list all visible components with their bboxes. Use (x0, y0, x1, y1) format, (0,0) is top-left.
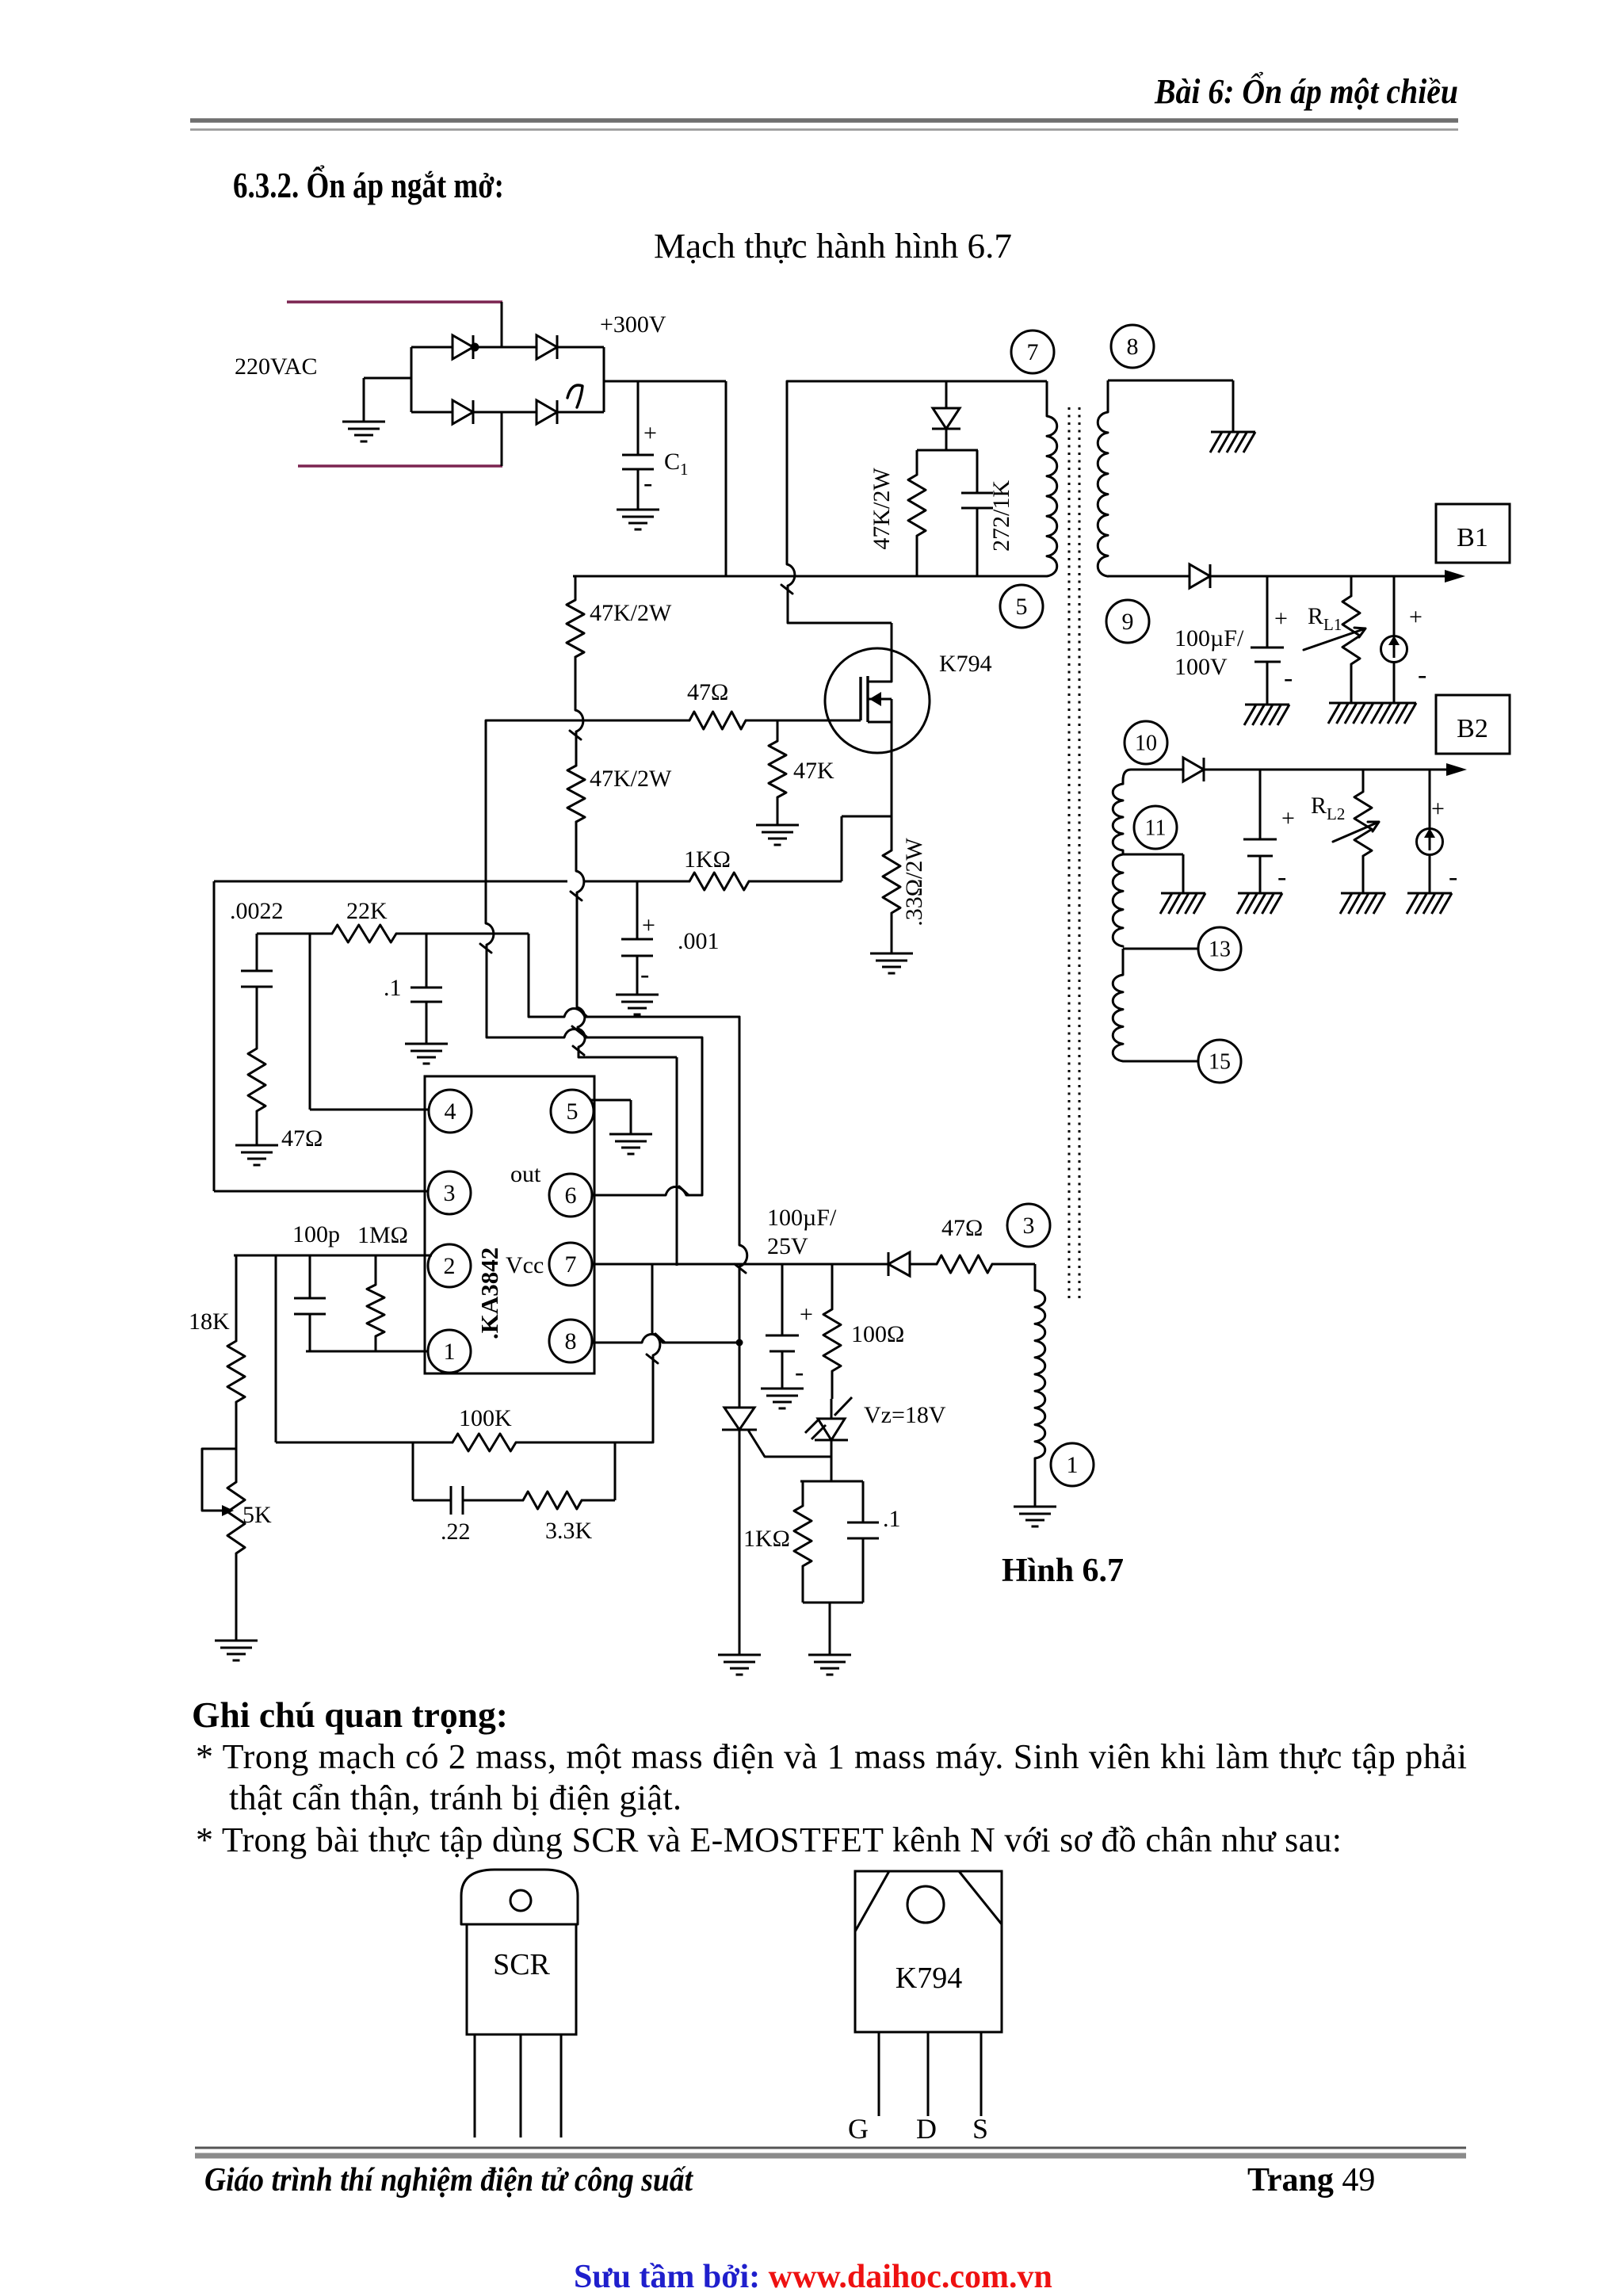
svg-text:Vz=18V: Vz=18V (864, 1402, 946, 1428)
svg-text:4: 4 (445, 1098, 456, 1125)
wire gate column (pin6 feed) (480, 720, 494, 1037)
svg-text:47Ω: 47Ω (281, 1125, 323, 1152)
svg-text:2: 2 (444, 1253, 456, 1279)
ground (pin5, earth) (609, 1134, 652, 1154)
svg-text:100K: 100K (459, 1405, 512, 1431)
svg-text:100µF/: 100µF/ (1174, 625, 1244, 651)
zener Vz wire (831, 1399, 833, 1419)
wire pin1 line (306, 1350, 428, 1353)
svg-text:+: + (643, 420, 657, 446)
wire zener to gate node (831, 1440, 833, 1481)
ground (SCR, earth) (718, 1655, 761, 1675)
node 15 (circle) (1198, 1040, 1241, 1083)
SCR package hole (510, 1890, 531, 1911)
svg-text:Trang 49: Trang 49 (1247, 2162, 1375, 2199)
svg-text:Mạch thực hành hình 6.7: Mạch thực hành hình 6.7 (654, 227, 1012, 266)
ground (source resistor, earth) (870, 953, 913, 973)
diode D9 (B1 rectifier) (1190, 564, 1210, 588)
wire pin2 line (234, 1255, 432, 1257)
node 8 (circle) (1111, 325, 1154, 368)
current source B2 symbol (1417, 828, 1443, 855)
ground (aux winding, earth) (1014, 1507, 1056, 1526)
wire pin8 line (hops 100K column) (592, 1334, 739, 1343)
resistor 47K/2W (lower) zigzag (567, 766, 585, 822)
ground (RL2, chassis) (1340, 893, 1385, 914)
resistor 47ohm (aux) zigzag (937, 1255, 992, 1273)
bridge frame wires (411, 347, 604, 412)
header double rule (190, 120, 1458, 130)
svg-text:47Ω: 47Ω (941, 1215, 983, 1241)
svg-text:3: 3 (1023, 1213, 1035, 1239)
transformer primary stem (1046, 381, 1048, 416)
junction dot (bridge top rail) (471, 343, 479, 352)
node 13 (circle) (1198, 927, 1241, 970)
wire Vcc line (592, 1263, 1035, 1266)
rheostat RL1 wires (1350, 576, 1353, 703)
resistor .33ohm/2W zigzag (883, 850, 900, 913)
svg-text:.1: .1 (883, 1506, 901, 1532)
svg-text:5K: 5K (242, 1502, 272, 1528)
svg-text:Hình 6.7: Hình 6.7 (1002, 1553, 1124, 1589)
ground (5K, earth) (215, 1641, 258, 1660)
svg-text:K794: K794 (896, 1962, 962, 1995)
wire snubber diode stem (945, 381, 948, 450)
wire winding 9 to diode (1108, 575, 1190, 578)
wire .22 to 3.3K (463, 1499, 523, 1502)
diode (Vcc charge) (888, 1252, 910, 1276)
svg-text:B1: B1 (1457, 523, 1488, 552)
wire SCR column (hops Vcc line) (735, 1017, 747, 1408)
svg-text:.22: .22 (441, 1519, 471, 1545)
current source B1 symbol (1381, 636, 1407, 663)
node 9 (circle) (1106, 600, 1149, 643)
wire pin6 (hops Vcc column) (592, 1186, 702, 1195)
resistor 1Mohm zigzag (367, 1285, 384, 1336)
junction dot pin8-SCR (736, 1339, 743, 1347)
resistor 100K zigzag (453, 1434, 516, 1451)
wire column hop over 1K line (571, 822, 584, 1007)
diode (snubber clamp) (932, 408, 960, 429)
resistor 47ohm (comp) zigzag (248, 1049, 265, 1111)
capacitor .001 plates (621, 939, 653, 956)
wire Vcc feed horizontal (579, 1056, 677, 1059)
wire H4 (pin6 feed horizontal) (487, 1029, 702, 1037)
capacitor 100uF/25V wires (781, 1264, 784, 1389)
svg-text:3: 3 (444, 1180, 456, 1206)
capacitor C1 plates (622, 455, 654, 469)
capacitor C1 wires (637, 381, 640, 510)
svg-text:47K/2W: 47K/2W (590, 766, 672, 792)
svg-text:1KΩ: 1KΩ (684, 846, 731, 873)
svg-text:8: 8 (1127, 334, 1139, 360)
svg-text:Ghi chú quan trọng:: Ghi chú quan trọng: (192, 1695, 508, 1735)
transformer primary winding (1047, 416, 1057, 576)
resistor 47K/2W (snubber) wires (916, 450, 918, 576)
B1 box (1436, 504, 1510, 563)
rheostat RL1 arrow (1304, 628, 1365, 650)
transformer secondary 13-15 stem (1122, 949, 1125, 975)
node 1 (circle) (1051, 1443, 1094, 1486)
svg-text:SCR: SCR (493, 1948, 550, 1981)
svg-text:G: G (848, 2113, 869, 2145)
wire source sense (842, 816, 892, 881)
wire 1K block bottom rail (803, 1603, 863, 1655)
capacitor .001 wires (636, 881, 639, 995)
capacitor 100uF/25V plates (766, 1335, 799, 1351)
ground (.001, earth) (616, 995, 659, 1014)
svg-text:25V: 25V (767, 1233, 808, 1259)
capacitor .22 plates (451, 1486, 463, 1515)
ground (1K block, earth) (808, 1655, 851, 1675)
wire 22K line (257, 933, 529, 935)
K794 package legs (879, 2032, 981, 2116)
IC pin 7 (circle) (549, 1243, 592, 1286)
wire snubber top rail (787, 380, 1047, 383)
transformer secondary 8-9 stem (1107, 380, 1109, 412)
capacitor 100p wires (309, 1255, 311, 1351)
svg-text:out: out (510, 1161, 541, 1187)
node 3 (circle) (1007, 1204, 1050, 1247)
resistor 47K/2W (upper) zigzag (567, 600, 584, 657)
resistor 18K zigzag (227, 1341, 245, 1402)
transistor Q1 body arrow (869, 692, 881, 706)
rheostat RL2 wires (1362, 770, 1365, 893)
wire secondary top rail (1108, 380, 1233, 432)
svg-text:B2: B2 (1457, 714, 1488, 743)
resistor 1Kohm (source sense) zigzag (689, 873, 749, 890)
svg-text:+300V: +300V (600, 311, 666, 338)
rheostat RL2 zigzag (1354, 792, 1372, 856)
ground (tap 11, chassis) (1160, 893, 1205, 914)
transistor Q1 channel bar (866, 676, 869, 722)
wire .22 left drop (413, 1442, 451, 1500)
wire H3 (ref node horizontal) (529, 1008, 739, 1017)
IC U1 KA3842 box (425, 1076, 594, 1373)
wire gate line (486, 720, 861, 722)
svg-text:18K: 18K (189, 1308, 230, 1335)
svg-text:1: 1 (444, 1339, 456, 1365)
ground (AC input, earth) (342, 422, 385, 441)
svg-text:47K/2W: 47K/2W (590, 600, 672, 626)
ground (current source B1, chassis) (1371, 703, 1416, 724)
resistor 18K wires (235, 1255, 238, 1482)
resistor 47K/2W (snubber) zigzag (908, 475, 926, 536)
resistor .33ohm/2W wires (891, 816, 893, 953)
resistor 47ohm (gate) zigzag (689, 712, 746, 729)
IC pin 3 (circle) (428, 1171, 471, 1214)
capacitor 272/1K wires (976, 450, 979, 576)
ground (current source B2, chassis) (1407, 893, 1452, 914)
svg-text:6.3.2. Ổn áp ngắt mở:: 6.3.2. Ổn áp ngắt mở: (233, 165, 504, 205)
svg-text:-: - (1284, 663, 1293, 693)
wire left column (214, 881, 428, 1191)
potentiometer 5K zigzag (227, 1482, 245, 1553)
transistor Q1 source stub (868, 699, 892, 722)
transformer secondary 13-15 winding (1113, 975, 1123, 1061)
diode D1 (bridge top-left) (453, 335, 473, 359)
transistor Q1 drain stub (869, 681, 892, 683)
node 11 (circle) (1134, 806, 1177, 849)
zener Vz symbol (805, 1397, 852, 1440)
transistor Q1 body stub (868, 698, 892, 701)
diode D3 (bridge bottom-left) (453, 400, 473, 424)
transformer secondary 11-13 winding (1113, 854, 1123, 946)
svg-text:5: 5 (1016, 594, 1028, 620)
svg-text:5: 5 (567, 1098, 579, 1125)
svg-text:100µF/: 100µF/ (767, 1205, 837, 1231)
svg-text:272/1K: 272/1K (988, 480, 1014, 552)
B2 arrowhead (1446, 763, 1467, 776)
ground (100uF/25V, earth) (761, 1389, 804, 1408)
wire AC top to bridge (501, 302, 503, 347)
resistor 1Kohm (gate) zigzag (794, 1506, 811, 1566)
node 7 (circle) (1011, 330, 1054, 373)
svg-text:.0022: .0022 (230, 898, 284, 924)
svg-text:Giáo trình thí nghiệm điện tử: Giáo trình thí nghiệm điện tử công suất (204, 2162, 693, 2199)
diode D4 (bridge bottom-right) (537, 400, 557, 424)
resistor 100ohm zigzag (823, 1309, 841, 1371)
resistor 22K zigzag (332, 925, 396, 942)
ground (.1 comp, earth) (405, 1044, 448, 1064)
capacitor .1 (comp) plates (411, 988, 442, 1002)
svg-text:* Trong mạch có 2 mass, một ma: * Trong mạch có 2 mass, một mass điện và… (196, 1737, 1467, 1776)
IC pin 5 (circle) (551, 1090, 594, 1133)
wire 1K block top rail (800, 1480, 863, 1483)
capacitor 100uF/100V wires (1266, 576, 1269, 705)
transistor Q1 K794 circle (825, 648, 930, 753)
wire 100K line (276, 1442, 652, 1444)
resistor 47K (gate-source) wires (777, 720, 779, 825)
wire drain riser (891, 623, 893, 682)
capacitor .1 (comp) wires (426, 934, 428, 1044)
handwritten mark near bridge (567, 385, 582, 407)
resistor 1Kohm (gate) wires (802, 1481, 804, 1603)
capacitor B2 wires (1259, 770, 1262, 893)
svg-text:+: + (800, 1301, 813, 1328)
svg-text:+: + (1431, 796, 1445, 822)
wire +300V drop to rail (725, 381, 727, 576)
capacitor .1 (gate) plates (847, 1522, 879, 1538)
ground (C1, earth) (617, 510, 659, 529)
capacitor B2 plates (1243, 839, 1277, 856)
wire winding 10 to diode (1123, 770, 1183, 784)
svg-text:.1: .1 (384, 975, 402, 1001)
capacitor .1 (gate) wires (862, 1481, 865, 1603)
wire +300V rail (573, 575, 1047, 578)
resistor 3.3K zigzag (523, 1492, 582, 1509)
wire 1K line (214, 881, 842, 883)
wire source down (891, 722, 893, 816)
svg-text:.33Ω/2W: .33Ω/2W (901, 838, 927, 926)
AC line (bottom, maroon) (298, 464, 502, 468)
capacitor .0022 wires (256, 934, 258, 1049)
svg-text:10: 10 (1135, 732, 1157, 756)
rheostat RL1 zigzag (1342, 596, 1360, 664)
ground (47K, earth) (756, 825, 799, 845)
wire 22K node drop (528, 934, 530, 1017)
K794 package body (855, 1871, 1002, 2032)
svg-text:100Ω: 100Ω (851, 1321, 904, 1347)
svg-text:+: + (1274, 606, 1288, 632)
transformer secondary 8-9 winding (1098, 412, 1108, 576)
svg-text:6: 6 (565, 1182, 577, 1209)
svg-text:100p: 100p (292, 1221, 340, 1247)
capacitor .0022 plates (241, 971, 273, 987)
B2 box (1436, 695, 1510, 754)
footer double rule (195, 2148, 1466, 2156)
transformer aux winding (1035, 1290, 1045, 1458)
AC line (top, maroon) (287, 300, 502, 304)
diode D2 (bridge top-right) (537, 335, 557, 359)
ground (RL1, chassis) (1328, 703, 1373, 724)
wire B1 rail (1210, 575, 1458, 578)
svg-text:.001: .001 (678, 928, 720, 954)
ground (capacitor B2, chassis) (1237, 893, 1282, 914)
wire pin4 riser (310, 934, 430, 1110)
svg-text:7: 7 (1027, 339, 1039, 365)
capacitor 100uF/100V plates (1251, 648, 1284, 662)
svg-text:1: 1 (1067, 1452, 1079, 1478)
svg-text:+: + (1409, 604, 1423, 630)
svg-text:-: - (1277, 862, 1286, 892)
svg-text:-: - (795, 1358, 804, 1387)
SCR package body (467, 1924, 576, 2034)
wire AC bottom to bridge (501, 412, 503, 466)
capacitor 100p plates (294, 1298, 326, 1314)
svg-text:-: - (643, 468, 652, 498)
svg-text:15: 15 (1209, 1050, 1231, 1075)
resistor 100ohm wires (831, 1264, 834, 1399)
wire aux winding to ground (1034, 1458, 1037, 1507)
svg-text:Vcc: Vcc (506, 1252, 544, 1278)
wire 47ohm to ground (256, 1111, 258, 1145)
wire column hop over gate line (570, 657, 583, 766)
svg-text:220VAC: 220VAC (235, 353, 317, 380)
wire 5K to ground (235, 1553, 238, 1641)
svg-text:47K/2W: 47K/2W (869, 468, 895, 550)
SCR package legs (475, 2034, 561, 2137)
SCR Q2 symbol (722, 1408, 757, 1430)
K794 package hole (907, 1886, 944, 1923)
wire snubber to drain (788, 622, 892, 625)
svg-text:1KΩ: 1KΩ (743, 1526, 790, 1552)
IC pin 1 (circle) (428, 1330, 471, 1373)
capacitor 272/1K plates (961, 493, 993, 508)
transistor Q1 gate bar (859, 677, 861, 720)
wire snubber left edge (hops rail) (781, 381, 795, 623)
svg-text:-: - (1418, 660, 1426, 690)
svg-text:100V: 100V (1174, 654, 1228, 680)
svg-text:22K: 22K (346, 898, 388, 924)
node 10 (circle) (1125, 721, 1167, 764)
transformer secondary 10-11 winding (1113, 784, 1123, 850)
current source B2 wires (1429, 770, 1431, 893)
wire tap 11 (1123, 850, 1183, 893)
wire Vcc feed vertical (676, 1057, 678, 1266)
wire Vcc col to 100K (hops pin8) (647, 1264, 660, 1442)
IC pin 4 (circle) (429, 1090, 472, 1133)
node 5 (circle) (1000, 585, 1043, 628)
SCR cathode wire (739, 1430, 741, 1655)
svg-text:Bài 6: Ổn áp một chiều: Bài 6: Ổn áp một chiều (1154, 71, 1458, 111)
wire 100K column (275, 1255, 277, 1442)
resistor 47K/2W (upper) wires (575, 576, 577, 600)
IC pin 6 (circle) (549, 1174, 592, 1217)
svg-text:3.3K: 3.3K (545, 1518, 593, 1544)
rheostat RL2 arrow (1333, 822, 1379, 842)
diode D10 (B2 rectifier) (1183, 758, 1204, 781)
svg-text:K794: K794 (939, 651, 992, 677)
svg-text:+: + (1281, 805, 1295, 831)
svg-text:11: 11 (1145, 816, 1167, 841)
wire B2 rail (1204, 769, 1460, 771)
current source B1 wires (1393, 576, 1396, 703)
potentiometer 5K wiper arrowhead (222, 1505, 234, 1516)
svg-text:7: 7 (565, 1251, 577, 1278)
IC pin 2 (circle) (428, 1244, 471, 1287)
SCR gate wire (749, 1431, 831, 1457)
ground (100uF/100V, chassis) (1244, 705, 1289, 725)
svg-text:Sưu tầm bởi: www.daihoc.com.vn: Sưu tầm bởi: www.daihoc.com.vn (574, 2259, 1052, 2295)
wire pin5 to ground (590, 1100, 631, 1134)
svg-text:47Ω: 47Ω (687, 679, 728, 705)
svg-text:-: - (1449, 862, 1457, 892)
ground (47ohm comp, earth) (235, 1145, 278, 1165)
resistor 1Mohm wires (375, 1255, 377, 1351)
wire 3.3K right drop (582, 1442, 615, 1500)
B1 arrowhead (1445, 570, 1465, 583)
wire AC neutral (364, 378, 411, 422)
resistor 47K (gate-source) zigzag (769, 741, 786, 797)
transformer core (dotted) (1069, 407, 1079, 1300)
svg-text:thật cẩn thận, tránh bị điện g: thật cẩn thận, tránh bị điện giật. (229, 1778, 682, 1817)
svg-text:D: D (916, 2113, 937, 2145)
svg-text:* Trong bài thực tập dùng SCR: * Trong bài thực tập dùng SCR và E-MOSTF… (196, 1820, 1342, 1859)
svg-text:1MΩ: 1MΩ (357, 1222, 408, 1248)
svg-text:+: + (642, 912, 655, 938)
ground (winding 8 top, chassis) (1210, 432, 1255, 453)
potentiometer 5K wiper (202, 1449, 236, 1511)
svg-text:8: 8 (565, 1328, 577, 1354)
svg-text:.KA3842: .KA3842 (475, 1247, 503, 1339)
svg-text:-: - (640, 960, 649, 989)
IC pin 8 (circle) (549, 1320, 592, 1362)
svg-text:S: S (972, 2113, 988, 2145)
svg-text:9: 9 (1122, 609, 1134, 635)
wire tap 13 (1123, 948, 1198, 950)
svg-text:47K: 47K (793, 758, 834, 784)
wire aux winding feed (1034, 1264, 1037, 1290)
SCR package tab (461, 1870, 578, 1924)
wire snubber parallel top (917, 449, 978, 452)
wire bridge output (604, 380, 726, 383)
wire pin6 riser (701, 1037, 704, 1195)
wire tap 15 (1123, 1060, 1198, 1063)
svg-text:13: 13 (1209, 938, 1231, 962)
wire column hops over H3 H4 (572, 1007, 585, 1057)
